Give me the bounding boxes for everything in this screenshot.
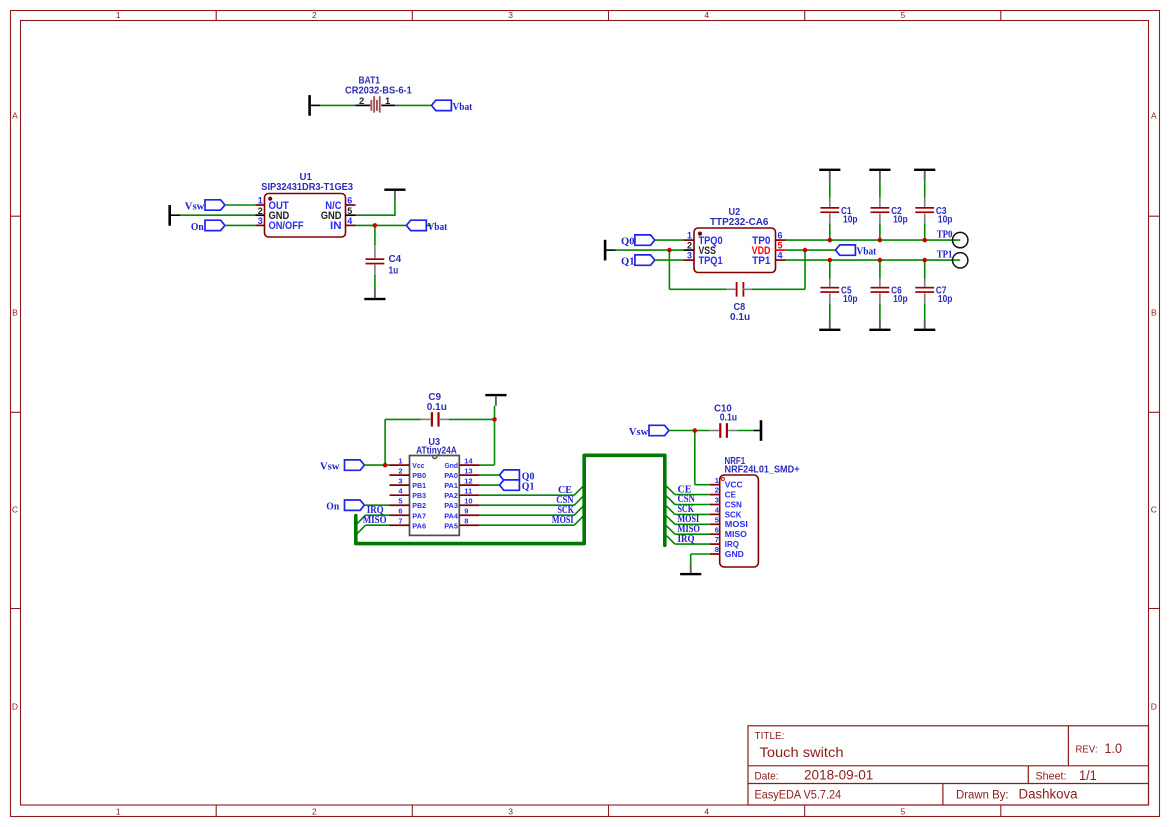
capacitor C5 10p [820, 279, 857, 306]
net flag Q0 [500, 470, 535, 483]
svg-text:2: 2 [687, 241, 692, 251]
svg-text:Q1: Q1 [621, 257, 635, 268]
ground (below NRF1) [680, 564, 701, 576]
capacitor C4 1u [366, 245, 402, 276]
net flag Vsw [185, 200, 225, 213]
wire net CE (NRF1 side) [665, 484, 710, 495]
wire (VDD to Vbat flag) [786, 249, 836, 251]
svg-text:5: 5 [778, 241, 783, 251]
capacitor C9 0.1u [421, 392, 449, 427]
svg-text:7: 7 [398, 517, 402, 526]
wire [320, 104, 356, 106]
capacitor C8 0.1u [727, 282, 752, 323]
ground (below C5) [819, 320, 840, 332]
wire (junction down to NRF1 VCC) [695, 431, 710, 485]
power bar (ground) right of C10 [754, 420, 763, 441]
wire [879, 180, 881, 197]
ground (above C3) [914, 169, 935, 181]
svg-text:PB1: PB1 [412, 481, 426, 490]
svg-text:2018-09-01: 2018-09-01 [804, 768, 873, 783]
svg-text:2: 2 [312, 807, 317, 817]
IC U3 ATtiny24A [390, 437, 480, 535]
wire net MISO (NRF1 side) [665, 524, 710, 535]
wire [374, 275, 376, 290]
svg-text:2: 2 [398, 467, 402, 476]
svg-text:3: 3 [687, 251, 692, 261]
wire [924, 180, 926, 197]
wire net MOSI (U3 side) [479, 515, 584, 526]
svg-text:VCC: VCC [725, 481, 743, 490]
svg-text:MOSI: MOSI [552, 515, 574, 526]
svg-text:PA1: PA1 [444, 481, 458, 490]
node (junction C9 right) [492, 417, 497, 422]
svg-text:5: 5 [398, 497, 402, 506]
svg-text:12: 12 [464, 477, 472, 486]
svg-text:1: 1 [116, 10, 121, 20]
svg-text:TP0: TP0 [937, 229, 953, 240]
svg-text:5: 5 [901, 807, 906, 817]
capacitor C3 10p [915, 197, 952, 226]
svg-text:10p: 10p [893, 294, 908, 305]
svg-text:PA0: PA0 [444, 471, 458, 480]
svg-text:Vsw: Vsw [629, 427, 649, 438]
svg-text:IRQ: IRQ [678, 534, 695, 545]
svg-text:B: B [12, 308, 18, 318]
svg-text:IRQ: IRQ [725, 540, 740, 549]
wire [616, 249, 684, 251]
wire [829, 303, 831, 319]
wire net MISO (U3 side) [356, 515, 390, 535]
svg-text:1.0: 1.0 [1105, 741, 1123, 756]
svg-text:13: 13 [464, 467, 472, 476]
wire (C9 left leg to Vcc) [385, 419, 421, 465]
svg-text:4: 4 [347, 216, 352, 226]
svg-text:A: A [12, 111, 18, 121]
title block [748, 726, 1149, 805]
svg-text:Drawn By:: Drawn By: [956, 790, 1009, 802]
svg-text:2: 2 [715, 486, 719, 495]
wire net CE (U3 side) [479, 485, 584, 496]
svg-text:TP1: TP1 [937, 250, 953, 261]
IC NRF1 NRF24L01_SMD+ radio module [710, 456, 800, 567]
net flag Q1 [500, 480, 535, 493]
svg-text:TITLE:: TITLE: [755, 730, 785, 742]
svg-text:10: 10 [464, 497, 472, 506]
node (junction at U1 IN) [373, 223, 378, 228]
svg-text:1: 1 [687, 231, 692, 241]
wire (NRF1 GND) [691, 554, 710, 564]
svg-text:CSN: CSN [725, 500, 742, 509]
wire (junction down to C4) [374, 225, 376, 245]
svg-text:PA2: PA2 [444, 491, 458, 500]
net flag Q0 [621, 235, 655, 248]
capacitor C7 10p [915, 279, 952, 306]
IC U2 TTP232-CA6 touch sensor [684, 207, 786, 273]
svg-text:8: 8 [464, 517, 468, 526]
svg-text:Vbat: Vbat [453, 102, 473, 113]
svg-text:10p: 10p [938, 215, 953, 226]
svg-text:A: A [1151, 111, 1157, 121]
svg-text:2: 2 [258, 206, 263, 216]
node (junction C1/TP0) [828, 238, 833, 243]
wire net IRQ (NRF1 side) [665, 534, 710, 545]
wire net CSN (U3 side) [479, 495, 584, 506]
capacitor C6 10p [871, 279, 908, 306]
svg-text:5: 5 [347, 206, 352, 216]
svg-text:3: 3 [508, 807, 513, 817]
svg-text:10p: 10p [938, 294, 953, 305]
wire (C8 up to VDD) [752, 250, 805, 289]
wire (C9 right leg) [449, 406, 495, 465]
svg-text:On: On [191, 222, 204, 233]
net flag Vbat [406, 220, 447, 233]
svg-text:Q1: Q1 [522, 482, 535, 493]
node (junction at VDD) [803, 248, 808, 253]
net flag Vbat [432, 100, 473, 113]
battery BAT1 CR2032-BS-6-1 [345, 76, 412, 113]
svg-text:Date:: Date: [755, 770, 779, 782]
svg-text:On: On [326, 502, 339, 513]
svg-text:CR2032-BS-6-1: CR2032-BS-6-1 [345, 86, 412, 97]
svg-text:MISO: MISO [725, 530, 748, 539]
svg-text:Vcc: Vcc [412, 461, 424, 470]
svg-text:2: 2 [359, 96, 364, 107]
svg-text:0.1u: 0.1u [427, 402, 447, 413]
svg-text:3: 3 [508, 10, 513, 20]
svg-text:3: 3 [258, 216, 263, 226]
node (junction at VSS) [667, 248, 672, 253]
node (junction at Vcc) [383, 463, 388, 468]
svg-text:14: 14 [464, 457, 473, 466]
svg-text:D: D [12, 702, 18, 712]
svg-text:TP1: TP1 [752, 255, 770, 267]
svg-text:PA4: PA4 [444, 511, 459, 520]
wire net SCK (NRF1 side) [665, 504, 710, 515]
wire [225, 204, 256, 206]
svg-text:PA6: PA6 [412, 521, 426, 530]
node (junction C3/TP0) [922, 238, 927, 243]
wire [924, 260, 926, 278]
net flag Vsw [629, 425, 669, 438]
svg-text:Gnd: Gnd [445, 461, 459, 470]
wire (U1 pin5 GND to ground) [356, 200, 395, 217]
wire [879, 224, 881, 241]
svg-text:1: 1 [385, 96, 391, 107]
svg-text:D: D [1151, 702, 1157, 712]
svg-text:6: 6 [398, 507, 402, 516]
power bar (ground) at U1 pin 2 [168, 205, 180, 226]
wire net MOSI (NRF1 side) [665, 514, 710, 525]
svg-text:5: 5 [715, 515, 719, 524]
ground (below C4) [364, 290, 385, 300]
wire [655, 259, 684, 261]
op-amp U1 SIP32431DR3-T1GE3 load switch [255, 172, 355, 237]
svg-text:10p: 10p [843, 294, 858, 305]
wire [924, 224, 926, 241]
wire (U1 pin4 IN to Vbat) [356, 224, 432, 226]
ground (above C1) [819, 169, 840, 181]
wire net TP0 [786, 239, 961, 241]
svg-text:Vsw: Vsw [320, 462, 340, 473]
capacitor C2 10p [871, 197, 908, 226]
wire [829, 260, 831, 278]
svg-text:11: 11 [464, 487, 472, 496]
svg-text:PA3: PA3 [444, 501, 458, 510]
svg-text:1: 1 [258, 196, 263, 206]
wire [364, 504, 389, 506]
svg-text:PB3: PB3 [412, 491, 426, 500]
node (junction C6/TP1) [878, 258, 883, 263]
node (junction C7/TP1) [922, 258, 927, 263]
svg-text:8: 8 [715, 545, 719, 554]
svg-text:PB0: PB0 [412, 471, 426, 480]
svg-text:MOSI: MOSI [725, 520, 748, 529]
wire [829, 180, 831, 197]
svg-text:4: 4 [778, 251, 783, 261]
wire net TP1 [786, 259, 961, 261]
node (junction C2/TP0) [878, 238, 883, 243]
svg-text:TTP232-CA6: TTP232-CA6 [710, 217, 769, 228]
svg-text:0.1u: 0.1u [720, 413, 737, 424]
net flag Vsw [320, 460, 364, 473]
wire [879, 260, 881, 278]
svg-text:TPQ1: TPQ1 [699, 255, 723, 267]
svg-text:5: 5 [901, 10, 906, 20]
svg-text:4: 4 [704, 10, 709, 20]
svg-text:1: 1 [116, 807, 121, 817]
test point TP1 [937, 250, 968, 268]
svg-text:0.1u: 0.1u [730, 312, 750, 323]
svg-text:1/1: 1/1 [1079, 768, 1097, 783]
ground (below C6) [869, 320, 890, 332]
svg-text:10p: 10p [893, 215, 908, 226]
wire (PA1 to Q1) [479, 484, 499, 486]
svg-text:1u: 1u [389, 266, 399, 277]
capacitor C10 0.1u [710, 403, 738, 438]
bus (SPI bus between U3 and NRF1) [356, 455, 665, 545]
ground (above U3) [485, 394, 506, 406]
wire [879, 303, 881, 319]
wire [738, 430, 754, 432]
wire (PA0 to Q0) [479, 474, 499, 476]
power bar (ground) at U2 VSS [604, 240, 616, 261]
svg-text:NRF24L01_SMD+: NRF24L01_SMD+ [725, 465, 800, 476]
svg-text:9: 9 [464, 507, 468, 516]
svg-text:6: 6 [715, 525, 719, 534]
wire [395, 104, 432, 106]
wire net CSN (NRF1 side) [665, 494, 710, 505]
svg-text:MISO: MISO [363, 515, 387, 526]
svg-text:B: B [1151, 308, 1157, 318]
wire [924, 303, 926, 319]
svg-text:Dashkova: Dashkova [1019, 787, 1078, 802]
capacitor C1 10p [820, 197, 857, 226]
test point TP0 [937, 229, 968, 247]
svg-text:GND: GND [725, 550, 744, 559]
node (junction C5/TP1) [828, 258, 833, 263]
svg-text:Vbat: Vbat [428, 222, 448, 233]
svg-text:7: 7 [715, 535, 719, 544]
wire [669, 430, 710, 432]
svg-text:C: C [1151, 505, 1157, 515]
svg-text:3: 3 [398, 477, 402, 486]
svg-text:2: 2 [312, 10, 317, 20]
svg-text:6: 6 [347, 196, 352, 206]
power bar Vbat- (battery negative) [308, 95, 320, 116]
svg-text:IN: IN [330, 220, 342, 232]
net flag Q1 [621, 255, 655, 268]
svg-text:ON/OFF: ON/OFF [269, 220, 304, 232]
wire [180, 214, 255, 216]
net flag Vbat [836, 245, 877, 258]
ground (above C2) [869, 169, 890, 181]
svg-text:3: 3 [715, 496, 719, 505]
svg-text:REV:: REV: [1076, 744, 1098, 756]
svg-text:PA7: PA7 [412, 511, 426, 520]
svg-text:CE: CE [725, 491, 737, 500]
svg-text:PB2: PB2 [412, 501, 426, 510]
wire (VSS down to C8) [669, 250, 726, 289]
svg-text:10p: 10p [843, 215, 858, 226]
svg-text:SIP32431DR3-T1GE3: SIP32431DR3-T1GE3 [261, 182, 353, 193]
ground (below C7) [914, 320, 935, 332]
svg-text:1: 1 [715, 476, 719, 485]
wire [655, 239, 684, 241]
svg-text:Touch switch: Touch switch [760, 744, 844, 760]
svg-text:6: 6 [778, 231, 783, 241]
wire [829, 224, 831, 241]
svg-text:C: C [12, 505, 18, 515]
node (junction at Vsw/C10) [693, 428, 698, 433]
ground (top, near U1) [384, 189, 405, 200]
svg-text:SCK: SCK [725, 510, 742, 519]
wire net IRQ (U3 side) [356, 505, 390, 525]
svg-text:Vsw: Vsw [185, 202, 205, 213]
svg-text:C4: C4 [389, 254, 402, 265]
wire [364, 464, 389, 466]
svg-text:4: 4 [704, 807, 709, 817]
wire [225, 224, 256, 226]
svg-text:EasyEDA V5.7.24: EasyEDA V5.7.24 [755, 788, 842, 802]
svg-text:Q0: Q0 [621, 237, 635, 248]
net flag On [326, 500, 364, 513]
svg-text:Vbat: Vbat [857, 247, 877, 258]
net flag On [191, 220, 225, 233]
svg-text:Sheet:: Sheet: [1036, 770, 1067, 782]
svg-text:PA5: PA5 [444, 521, 458, 530]
svg-text:1: 1 [398, 457, 402, 466]
wire net SCK (U3 side) [479, 505, 584, 516]
